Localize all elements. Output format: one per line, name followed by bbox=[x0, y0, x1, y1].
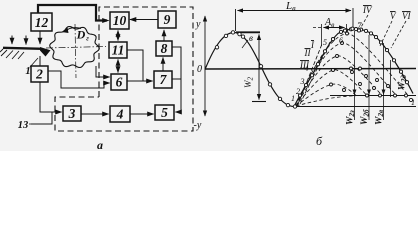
Lv left extension bbox=[235, 9, 237, 31]
svg-text:5: 5 bbox=[161, 105, 168, 120]
fan curve I bbox=[296, 84, 356, 106]
zero axis bbox=[205, 68, 416, 71]
wire 7 right to trunk bbox=[172, 78, 181, 80]
svg-text:D: D bbox=[76, 28, 86, 42]
svg-text:3: 3 bbox=[300, 77, 305, 86]
dim arrow c bbox=[383, 91, 385, 95]
wire 2 top to tool bbox=[39, 56, 41, 66]
wire 10-11 both ways bbox=[117, 31, 119, 41]
svg-text:1: 1 bbox=[25, 66, 30, 77]
rotation arrow on cam bbox=[66, 28, 81, 31]
cam centerline horizontal bbox=[46, 47, 106, 49]
dim arrow a bbox=[354, 91, 356, 95]
svg-text:2: 2 bbox=[35, 67, 43, 82]
cam centerline vertical bbox=[75, 24, 76, 78]
Lv right extension bbox=[352, 8, 354, 30]
wire 4 to 5 bbox=[130, 113, 154, 115]
load arrow left bbox=[11, 36, 13, 45]
thick wire from 12 to 10 bbox=[38, 5, 107, 21]
dim arrow b bbox=[368, 91, 370, 95]
leader for 13 bbox=[29, 123, 32, 125]
block 5 bbox=[155, 105, 174, 120]
wire 9 to 10 bbox=[130, 19, 158, 21]
y axis bbox=[204, 16, 206, 116]
bottom baseline bbox=[294, 106, 416, 108]
svg-text:10: 10 bbox=[113, 13, 127, 28]
svg-text:а: а bbox=[97, 138, 103, 151]
block 7 bbox=[154, 71, 172, 88]
block 10 bbox=[110, 12, 129, 29]
hatching bbox=[0, 49, 24, 59]
svg-text:6: 6 bbox=[339, 36, 343, 45]
svg-text:5: 5 bbox=[323, 38, 327, 47]
lower flat line bbox=[330, 95, 416, 97]
wire 11 right to 7 bbox=[127, 50, 143, 81]
svg-text:W2б: W2б bbox=[360, 109, 371, 125]
Av left extension bbox=[321, 24, 323, 46]
svg-text:в: в bbox=[249, 33, 253, 43]
svg-text:11: 11 bbox=[112, 43, 125, 58]
leader for 1 bbox=[30, 58, 38, 67]
block 11 bbox=[109, 42, 127, 58]
fan curve II bbox=[296, 70, 367, 106]
graph text labels bbox=[194, 0, 416, 148]
extension line c bbox=[383, 43, 385, 120]
wire 6 to 7 bbox=[127, 80, 153, 82]
svg-text:7: 7 bbox=[357, 21, 362, 31]
svg-text:12: 12 bbox=[35, 15, 49, 30]
svg-text:W2з: W2з bbox=[346, 110, 357, 125]
wire 3 to 4 bbox=[81, 113, 109, 115]
fan curve IV bbox=[296, 43, 396, 106]
wire 8 to 9 bbox=[163, 30, 165, 41]
svg-text:W2в: W2в bbox=[375, 110, 386, 125]
svg-text:VI: VI bbox=[402, 11, 411, 21]
fixed support bar bbox=[3, 48, 42, 49]
svg-text:IV: IV bbox=[362, 5, 373, 15]
svg-text:II: II bbox=[304, 48, 312, 58]
W2 dimension line bbox=[258, 35, 260, 100]
svg-text:б: б bbox=[316, 134, 323, 148]
Av dimension line bbox=[324, 27, 345, 29]
svg-text:1: 1 bbox=[291, 94, 295, 103]
svg-text:9: 9 bbox=[164, 12, 171, 27]
tool tip (feeler) bbox=[40, 47, 51, 57]
steep chord b bbox=[300, 42, 330, 104]
wire 13 input bbox=[31, 112, 52, 124]
sine curve bbox=[205, 33, 294, 107]
svg-text:13: 13 bbox=[18, 120, 29, 131]
block 4 bbox=[110, 106, 130, 122]
extension line a bbox=[354, 31, 356, 120]
svg-text:III: III bbox=[299, 60, 310, 70]
leader V bbox=[380, 21, 392, 46]
leader v label bbox=[242, 40, 248, 48]
block 6 bbox=[111, 74, 127, 90]
wire 11-6 both ways bbox=[117, 60, 119, 73]
block 8 bbox=[156, 41, 172, 56]
fan curve V bbox=[296, 33, 407, 106]
wire 12 down to bar bbox=[39, 31, 41, 44]
block 3 bbox=[63, 106, 81, 121]
wire 2 right to 6 bbox=[48, 71, 110, 88]
fan curve III bbox=[296, 56, 382, 106]
block digit labels bbox=[18, 12, 171, 152]
wire 8 right trunk to 5 bbox=[172, 47, 181, 112]
svg-text:8: 8 bbox=[161, 41, 168, 56]
svg-text:3: 3 bbox=[68, 106, 76, 121]
svg-text:2: 2 bbox=[296, 87, 300, 96]
load arrow right bbox=[25, 36, 27, 45]
data point circles bbox=[215, 27, 412, 108]
peak tangent bar bbox=[236, 31, 260, 33]
svg-text:-y: -y bbox=[194, 120, 202, 131]
steep chord a bbox=[298, 44, 322, 104]
svg-text:г: г bbox=[86, 35, 89, 43]
Lv dimension line bbox=[238, 10, 352, 12]
wire 2 to 3 bbox=[40, 82, 62, 112]
svg-text:y: y bbox=[195, 19, 201, 30]
leader IV bbox=[360, 15, 368, 29]
extension line d bbox=[390, 60, 392, 97]
svg-text:4: 4 bbox=[116, 107, 124, 122]
svg-text:6: 6 bbox=[116, 75, 123, 90]
wire 7 to 8 bbox=[162, 58, 164, 72]
envelope curve bbox=[294, 29, 413, 106]
W2 bottom tick bbox=[252, 101, 266, 103]
svg-text:0: 0 bbox=[197, 64, 202, 75]
extension line b bbox=[368, 35, 370, 120]
dashed enclosure border bbox=[55, 7, 193, 131]
leader VI bbox=[391, 21, 406, 48]
block 2 bbox=[31, 66, 48, 82]
fan curve 0 bbox=[296, 96, 356, 106]
block 9 bbox=[158, 11, 176, 28]
block 12 bbox=[31, 13, 52, 31]
cam workpiece outline bbox=[50, 27, 100, 68]
svg-text:1: 1 bbox=[411, 98, 415, 107]
wire cam to 6 bbox=[96, 66, 110, 77]
Av right extension bbox=[346, 24, 348, 32]
